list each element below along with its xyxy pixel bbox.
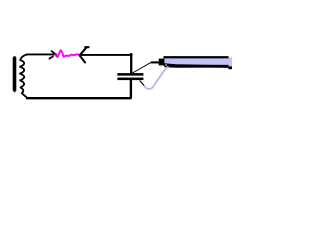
antenna rod lavender right tail bbox=[228, 58, 232, 67]
antenna rod top edge bbox=[164, 56, 229, 58]
lead wire horizontal stub at antenna tab bbox=[151, 61, 159, 63]
spark gap arrow pointing right bbox=[49, 51, 56, 59]
capacitor C1 bottom plate bbox=[117, 78, 143, 81]
inductor L1 coil bbox=[20, 54, 28, 97]
right vertical wire (top) bbox=[130, 53, 132, 73]
spark gap arrow pointing left bbox=[80, 47, 89, 62]
lead wire from capacitor top to antenna tab (thin diagonal) bbox=[133, 62, 152, 73]
right vertical wire (bottom) bbox=[130, 80, 132, 98]
lead wire from capacitor bottom plate (black part) bbox=[140, 81, 145, 86]
antenna rod left end tab bbox=[159, 59, 165, 66]
lavender notch on antenna rod bottom edge bbox=[165, 64, 166, 66]
ferrite core bar top nub bbox=[14, 56, 16, 57]
antenna rod bottom edge bbox=[164, 63, 228, 68]
ferrite core bar bbox=[13, 57, 17, 91]
capacitor C1 top plate bbox=[117, 73, 143, 76]
antenna rod lavender body bbox=[163, 57, 232, 66]
top wire (coil to spark gap) bbox=[27, 53, 57, 55]
ferrite core bar bottom nub bbox=[14, 91, 16, 92]
spark (magenta zigzag) bbox=[55, 50, 79, 57]
antenna rod bottom edge right step bbox=[228, 66, 232, 69]
lavender wire from capacitor to antenna bbox=[144, 67, 168, 89]
top wire (spark gap to right corner) bbox=[80, 54, 132, 56]
bottom wire bbox=[26, 97, 132, 99]
